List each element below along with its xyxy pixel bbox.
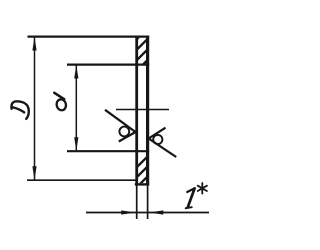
- thickness arrow pointing left: [149, 210, 164, 214]
- d arrow up: [74, 65, 78, 79]
- d arrow down: [74, 137, 78, 151]
- D arrow down: [32, 166, 36, 180]
- left extension line below part: [136, 186, 138, 220]
- D dimension line: [34, 37, 36, 180]
- label 1 (italic, hand-drawn): [186, 188, 195, 208]
- washer right face edge: [146, 36, 149, 186]
- D bottom extension line: [27, 179, 137, 181]
- hole bottom line with d bottom extension line: [67, 150, 149, 152]
- washer top edge with D top extension line: [28, 35, 150, 37]
- right extension line below part: [147, 186, 149, 220]
- thickness dimension line (1*): [86, 212, 209, 214]
- roughness symbol left face (no material removal): [105, 110, 136, 142]
- D arrow up: [32, 37, 36, 51]
- roughness symbol right face (no material removal): [149, 128, 177, 157]
- label D (cursive, rotated): [11, 101, 28, 119]
- thickness arrow pointing right: [121, 210, 136, 214]
- label d (cursive, rotated): [54, 93, 67, 112]
- hole top line with d top extension line: [67, 63, 149, 65]
- washer left face edge: [135, 36, 138, 186]
- axis centerline: [116, 109, 169, 111]
- d dimension line: [75, 65, 77, 151]
- asterisk note mark: [198, 183, 207, 194]
- section hatching top band: [26, 20, 188, 150]
- section hatching bottom band: [54, 120, 204, 250]
- washer bottom edge: [135, 183, 149, 185]
